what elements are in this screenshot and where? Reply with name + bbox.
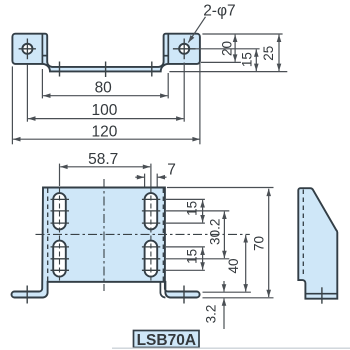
front view slot projection tick right (151, 62, 153, 77)
bracket front view U-channel body (12, 34, 200, 72)
svg-text:70: 70 (252, 236, 267, 251)
side view bend line dashed (302, 190, 304, 277)
plan plate bottom edge right segment (48, 282, 166, 298)
dim 80 (43, 95, 167, 97)
bracket side view body (298, 188, 337, 299)
svg-text:25: 25 (261, 46, 276, 61)
extension line hole center right (196, 48, 260, 50)
dim 20 (234, 35, 236, 62)
svg-text:2-φ7: 2-φ7 (203, 2, 235, 19)
slot top-left (53, 193, 66, 229)
dim 15 bottom (202, 248, 204, 270)
part number label box (134, 331, 200, 348)
extension 7 left (144, 174, 146, 187)
extension plan plate top right (167, 187, 274, 189)
hole right crosshair (173, 39, 196, 60)
slot bottom-left (53, 241, 66, 277)
dim 7 arrows outside (135, 176, 144, 178)
front view left bend seam line (41, 34, 43, 64)
extension line 120 left (11, 66, 13, 144)
dim 3.2 upper arrow (223, 281, 225, 292)
slot top-right (145, 193, 158, 229)
slot centerline left dashed (59, 188, 61, 283)
extension 58.7 right (150, 164, 152, 187)
dim 100 (28, 118, 183, 120)
hole right (phi 7) (179, 44, 189, 54)
leader 2-phi7 (188, 17, 205, 43)
svg-text:LSB70A: LSB70A (137, 332, 196, 349)
side view foot top line (305, 293, 337, 295)
svg-text:120: 120 (91, 124, 117, 141)
front view right bend seam line (167, 34, 169, 64)
dim 15 (255, 49, 257, 71)
svg-text:40: 40 (226, 258, 241, 273)
dim 3.2 lower arrow (223, 298, 225, 329)
dim 15 top (202, 200, 204, 222)
svg-text:100: 100 (91, 102, 117, 119)
extension line 80 right (167, 73, 169, 98)
extension line channel bottom right (169, 71, 287, 73)
extension line 120 right (199, 62, 201, 144)
svg-text:7: 7 (167, 161, 176, 178)
plan bend line right dashed (162, 189, 164, 282)
extension 58.7 left (59, 164, 61, 186)
dim 58.7 (60, 166, 150, 168)
slot centerline right dashed (150, 188, 152, 283)
front view left fold mark (42, 55, 47, 57)
plan vertical centerline dash-dot (103, 179, 105, 291)
svg-text:15: 15 (240, 52, 255, 67)
svg-text:20: 20 (219, 41, 234, 56)
svg-text:80: 80 (95, 80, 113, 97)
front view center tick (105, 62, 107, 78)
front view right fold mark (164, 55, 169, 57)
extension line plate top right (202, 33, 282, 35)
dim 40 (245, 235, 247, 291)
extension lines right of plan plate (166, 199, 229, 270)
slot bottom-right (145, 241, 158, 277)
extension foot top right (203, 291, 251, 293)
extension line 80 left (41, 69, 43, 98)
plan bend line left dashed (47, 189, 49, 282)
extension line 100 left (26, 65, 28, 122)
hole left (phi 7) (22, 44, 32, 54)
extension foot bottom right (203, 297, 274, 299)
plan horizontal centerline dash-dot (36, 233, 250, 235)
faint table rule (112, 347, 350, 349)
dim 30.2 (223, 212, 225, 259)
svg-text:3.2: 3.2 (203, 305, 218, 324)
dim 25 (278, 35, 280, 71)
extension line channel fold right (201, 61, 241, 63)
extension 7 right (156, 174, 158, 187)
svg-text:15: 15 (185, 249, 200, 264)
bracket plan view body with feet (12, 188, 200, 298)
foot hole tick left (26, 286, 28, 304)
dim 70 (268, 189, 270, 297)
svg-text:58.7: 58.7 (88, 151, 118, 168)
extension line 100 right (183, 63, 185, 122)
foot hole tick right (183, 286, 185, 304)
dim 120 (13, 138, 200, 140)
svg-text:15: 15 (185, 201, 200, 216)
svg-text:30.2: 30.2 (208, 219, 223, 245)
front view slot projection tick left (59, 62, 61, 77)
hole left crosshair (19, 39, 36, 60)
slot arc-center ticks row1 (51, 199, 161, 223)
slot arc-center ticks row2 (51, 247, 161, 270)
side view hole tick (321, 287, 323, 303)
